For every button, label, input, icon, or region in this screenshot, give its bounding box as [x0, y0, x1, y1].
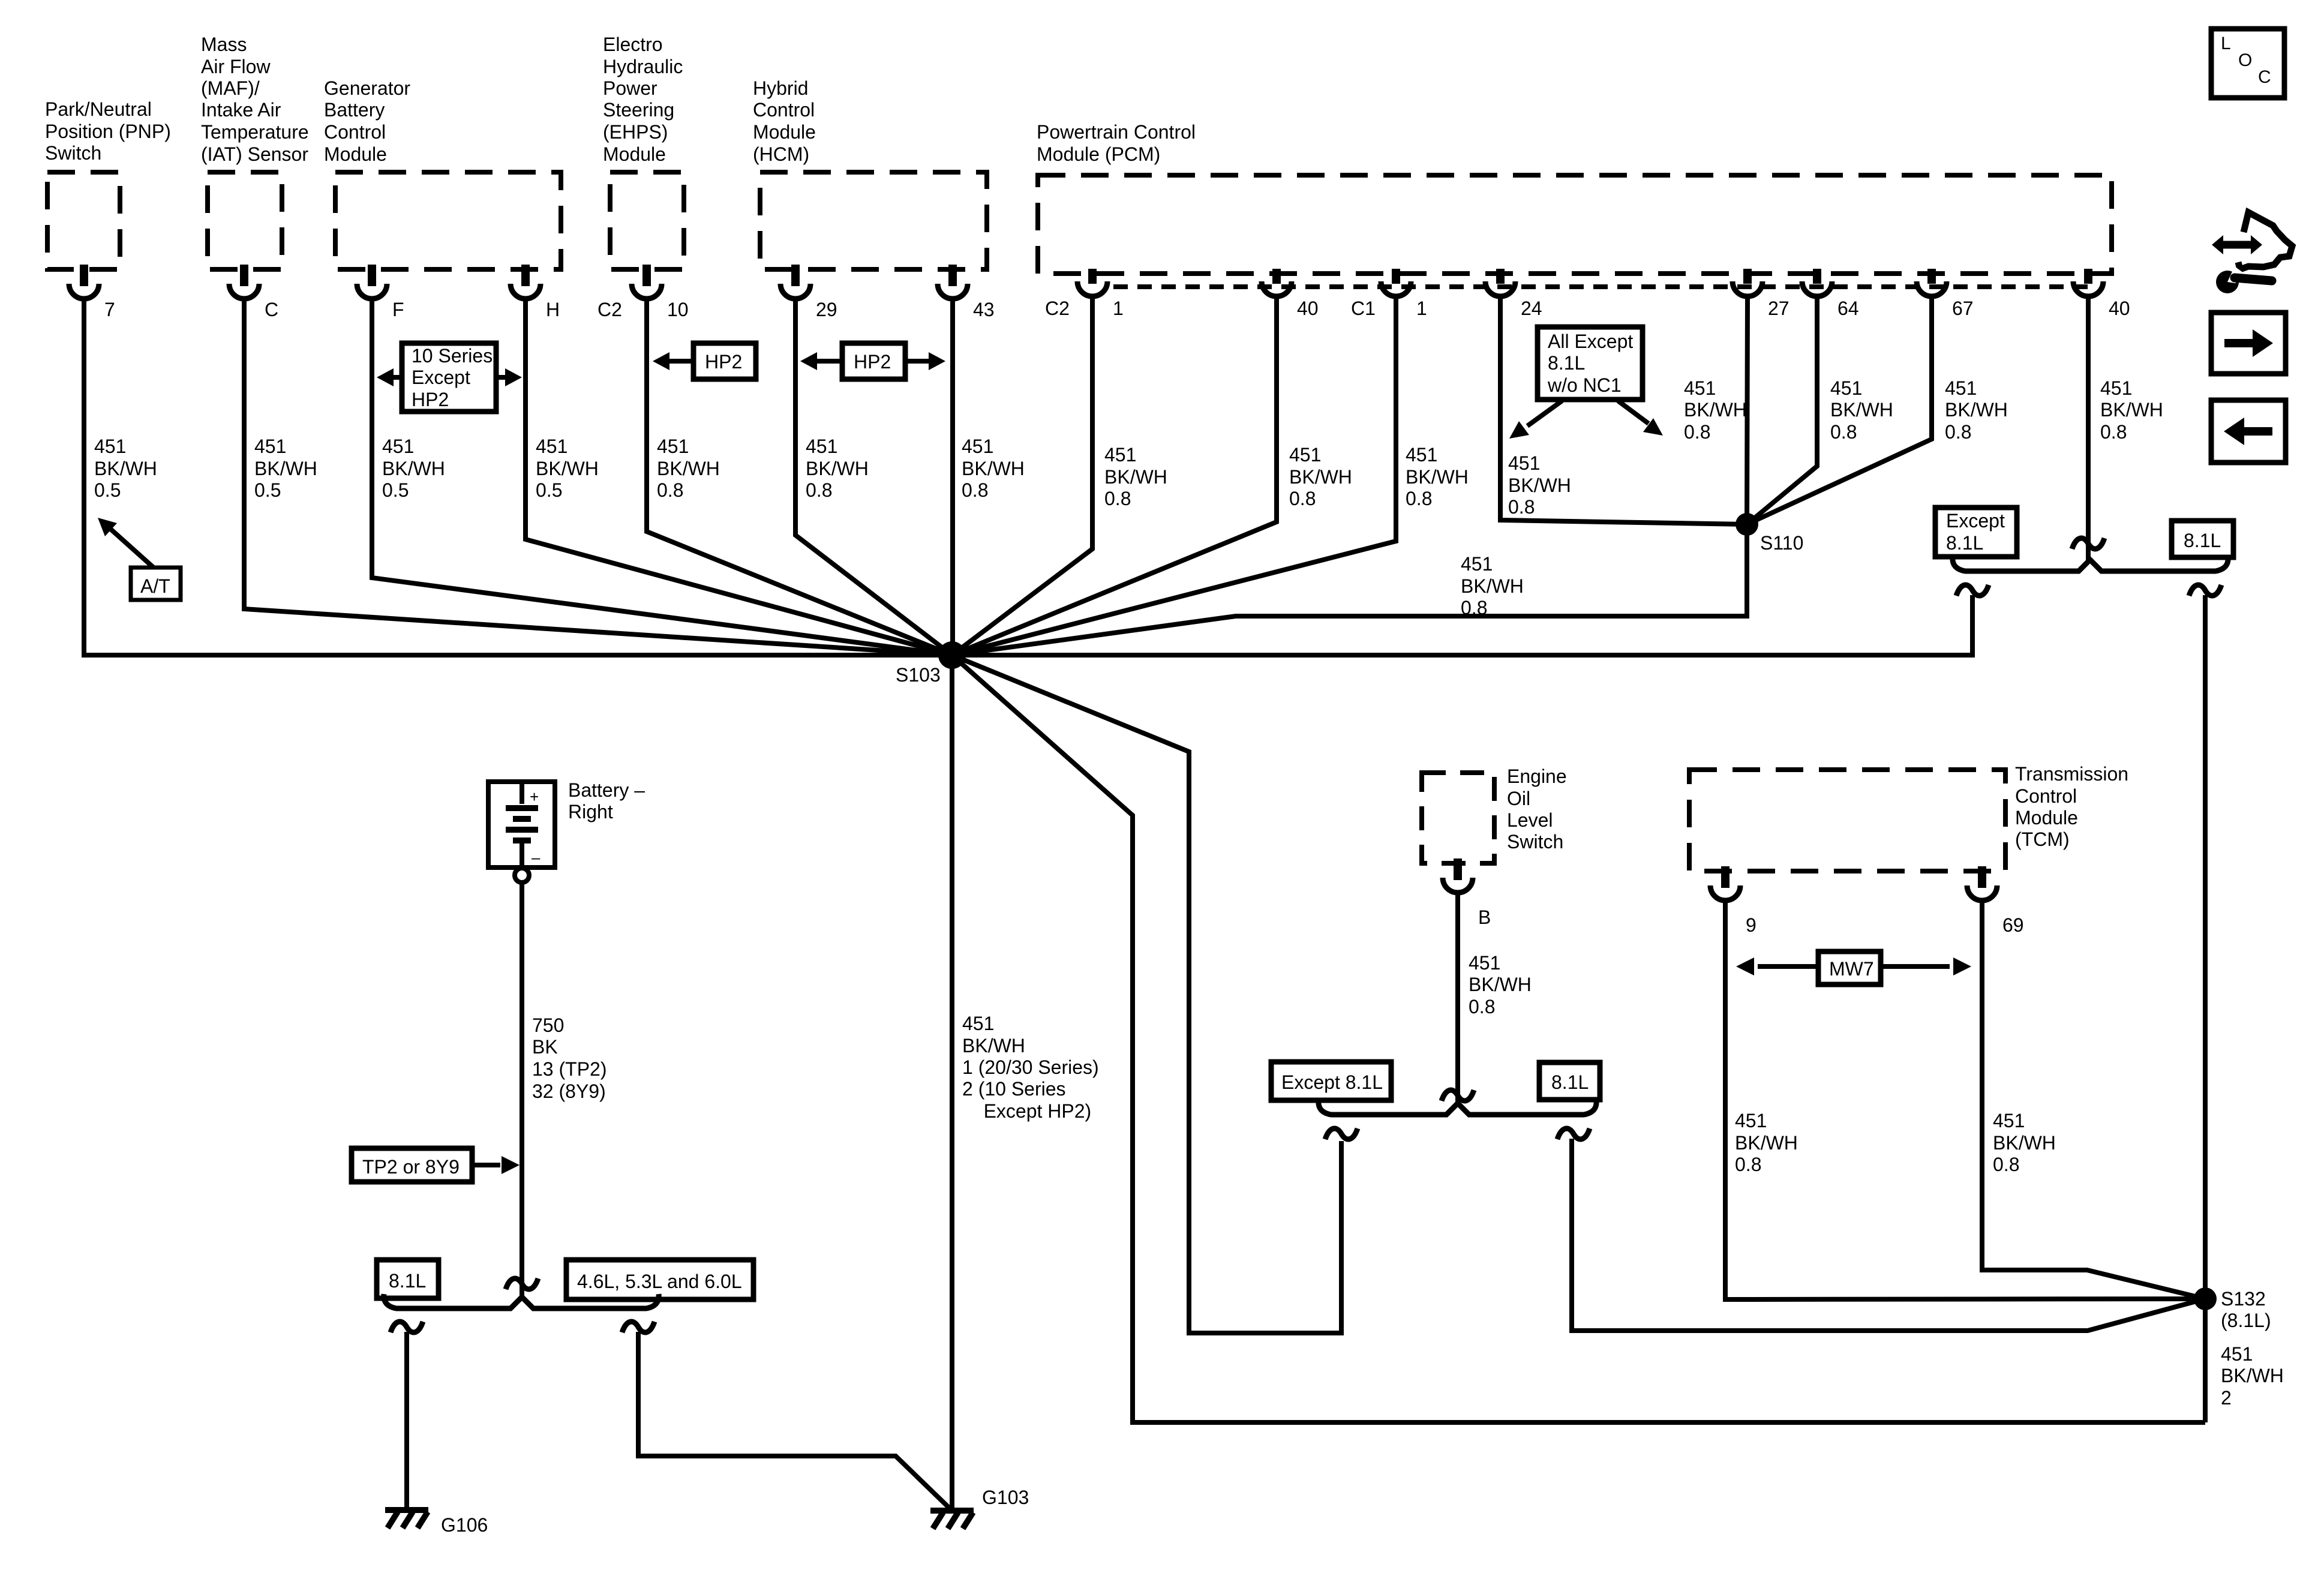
svg-text:H: H [546, 299, 560, 320]
splice S103 [896, 641, 966, 686]
svg-text:0.8: 0.8 [1406, 488, 1432, 509]
module Park/Neutral Position (PNP) Switch [45, 98, 171, 269]
PCM connector pin 1a [1077, 269, 1124, 319]
svg-text:0.8: 0.8 [806, 479, 832, 501]
svg-text:1: 1 [1113, 298, 1124, 319]
wire TCM pin 69 to S132 (451 BK/WH 0.8) [1982, 902, 2205, 1299]
PCM connector pin 67 [1917, 269, 1974, 319]
PCM connector pin 40b [2073, 269, 2130, 319]
wire label 451 BK/WH 0.8 (TCM 9) [1735, 1110, 1798, 1175]
svg-text:4.6L, 5.3L and 6.0L: 4.6L, 5.3L and 6.0L [577, 1271, 742, 1292]
svg-text:MW7: MW7 [1829, 958, 1874, 980]
wire pin 43 to S103 (451 BK/WH 0.8) [950, 300, 955, 655]
svg-text:BK/WH: BK/WH [536, 458, 599, 479]
svg-text:10 Series: 10 Series [412, 345, 493, 367]
connector label C2 (EHPS) [597, 299, 622, 320]
wire pin B down (451 BK/WH 0.8) [1455, 893, 1460, 1105]
wire label 451 BK/WH 0.8 (oil switch) [1469, 952, 1532, 1017]
wire label 451 BK/WH 0.8 [1289, 444, 1352, 509]
svg-text:13 (TP2): 13 (TP2) [532, 1058, 606, 1080]
wire label 451 BK/WH 0.8 [806, 436, 869, 501]
svg-text:Module: Module [603, 143, 666, 165]
svg-text:C: C [265, 299, 278, 320]
svg-text:451: 451 [657, 436, 689, 457]
module Electro Hydraulic Power Steering (EHPS) Module [603, 34, 684, 269]
svg-text:+: + [530, 788, 539, 806]
module Hybrid Control Module (HCM) [753, 77, 987, 269]
svg-text:67: 67 [1952, 298, 1974, 319]
svg-text:Control: Control [753, 99, 815, 121]
svg-text:0.8: 0.8 [1469, 996, 1495, 1017]
splice squiggle above oil brace [1442, 1090, 1474, 1101]
svg-text:HP2: HP2 [854, 351, 891, 373]
svg-text:8.1L: 8.1L [1548, 352, 1585, 374]
svg-text:1 (20/30 Series): 1 (20/30 Series) [962, 1056, 1099, 1078]
svg-text:Module: Module [324, 143, 387, 165]
brace split 8.1L / 4.6L,5.3L,6.0L [384, 1294, 659, 1308]
squiggle below top brace left [1956, 585, 1989, 596]
svg-text:451: 451 [962, 436, 993, 457]
splice squiggle above battery brace [506, 1278, 538, 1289]
svg-text:40: 40 [2109, 298, 2130, 319]
svg-text:0.5: 0.5 [94, 479, 121, 501]
svg-text:BK/WH: BK/WH [1406, 466, 1469, 488]
svg-text:BK/WH: BK/WH [94, 458, 157, 479]
svg-text:Air Flow: Air Flow [201, 56, 271, 77]
splice S110 [1736, 513, 1803, 554]
wire label 750 BK 13 (TP2) 32 (8Y9) [532, 1014, 606, 1102]
svg-text:451: 451 [1945, 377, 1977, 399]
wire label 451 BK/WH 0.8 (pin 24) [1508, 452, 1571, 518]
wire top brace right down to S132 (8.1L) [2203, 595, 2208, 1422]
wire PCM pin 27 to S110 (451 BK/WH 0.8) [1747, 298, 1747, 524]
svg-text:F: F [392, 299, 404, 320]
svg-text:Intake Air: Intake Air [201, 99, 281, 121]
svg-text:BK/WH: BK/WH [1469, 974, 1532, 995]
svg-text:O: O [2238, 50, 2252, 70]
wire S103 to oil brace left hook [952, 655, 1341, 1333]
svg-text:Oil: Oil [1507, 788, 1530, 809]
svg-text:Steering: Steering [603, 99, 674, 121]
connector pin 7 [69, 265, 115, 320]
svg-text:C: C [2258, 67, 2271, 87]
svg-text:Park/Neutral: Park/Neutral [45, 98, 152, 120]
wire oil brace right to S132 (8.1L) [1572, 1139, 2205, 1331]
svg-text:451: 451 [806, 436, 837, 457]
callout box A/T with arrow [98, 518, 181, 600]
svg-text:Powertrain Control: Powertrain Control [1037, 121, 1196, 143]
svg-text:0.5: 0.5 [382, 479, 409, 501]
svg-text:–: – [532, 848, 541, 866]
svg-text:0.8: 0.8 [962, 479, 988, 501]
svg-text:451: 451 [1830, 377, 1862, 399]
svg-text:BK/WH: BK/WH [806, 458, 869, 479]
svg-text:8.1L: 8.1L [389, 1270, 426, 1292]
svg-text:Control: Control [2015, 785, 2077, 807]
callout box TP2 or 8Y9 with arrow [352, 1148, 520, 1182]
wire S103 down to ground G103 [950, 655, 954, 1511]
PCM internal dotted bus line [1113, 284, 2088, 289]
wire pin F to S103 (451 BK/WH 0.5) [372, 300, 952, 655]
icon arrow-left legend box [2211, 400, 2286, 463]
svg-text:451: 451 [2100, 377, 2132, 399]
svg-text:451: 451 [254, 436, 286, 457]
svg-text:451: 451 [382, 436, 414, 457]
svg-text:451: 451 [1684, 377, 1716, 399]
svg-text:BK: BK [532, 1036, 558, 1058]
wire label 451 BK/WH 0.8 (pin 67) [1945, 377, 2008, 443]
module Powertrain Control Module (PCM) [1037, 121, 2112, 274]
svg-text:C2: C2 [1045, 298, 1070, 319]
svg-text:Except: Except [1946, 510, 2005, 532]
svg-text:Right: Right [568, 801, 613, 822]
svg-text:w/o NC1: w/o NC1 [1547, 374, 1622, 396]
callout box 8.1L (battery brace) [377, 1260, 439, 1298]
svg-text:Switch: Switch [1507, 831, 1563, 852]
connector pin 10 [632, 265, 689, 320]
svg-text:Transmission: Transmission [2015, 763, 2128, 785]
svg-text:Except HP2): Except HP2) [962, 1100, 1091, 1122]
svg-text:Except 8.1L: Except 8.1L [1281, 1071, 1383, 1093]
wire PCM pin 40 (right) to brace (451 BK/WH 0.8) [2086, 298, 2091, 562]
svg-text:27: 27 [1768, 298, 1789, 319]
svg-text:451: 451 [1461, 553, 1493, 575]
svg-text:BK/WH: BK/WH [1945, 399, 2008, 421]
wire label 451 BK/WH 0.5 [254, 436, 317, 501]
connector pin 29 [780, 265, 837, 320]
PCM connector pin 24 [1485, 269, 1542, 319]
wire PCM pin 67 to S110 (451 BK/WH 0.8) [1747, 298, 1932, 524]
TCM connector pin 9 [1710, 866, 1756, 936]
connector pin C [229, 265, 278, 320]
module Generator Battery Control Module [324, 77, 561, 269]
svg-text:29: 29 [816, 299, 837, 320]
wire battery brace left to ground G106 (8.1L) [404, 1332, 409, 1510]
svg-text:TP2 or 8Y9: TP2 or 8Y9 [362, 1156, 460, 1178]
svg-text:8.1L: 8.1L [1946, 532, 1983, 554]
svg-text:451: 451 [1469, 952, 1500, 974]
wire label 451 BK/WH 0.8 [962, 436, 1025, 501]
svg-text:G103: G103 [982, 1487, 1029, 1508]
svg-text:(MAF)/: (MAF)/ [201, 77, 260, 99]
callout box HP2 (HCM) with arrows [800, 343, 945, 379]
wire label 451 BK/WH 0.5 [382, 436, 445, 501]
svg-text:Hybrid: Hybrid [753, 77, 808, 99]
svg-text:451: 451 [1104, 444, 1136, 466]
battery terminal circle [515, 868, 529, 882]
wire label 451 BK/WH 0.8 (pin 40 right) [2100, 377, 2163, 443]
svg-text:9: 9 [1746, 914, 1756, 936]
svg-text:0.8: 0.8 [1461, 597, 1487, 619]
svg-text:Battery –: Battery – [568, 779, 645, 801]
svg-text:451: 451 [536, 436, 568, 457]
svg-text:Control: Control [324, 121, 386, 143]
svg-text:Generator: Generator [324, 77, 410, 99]
wire label 451 BK/WH 0.8 (S110 to S103) [1461, 553, 1524, 619]
svg-text:(TCM): (TCM) [2015, 828, 2070, 850]
callout box All Except 8.1L w/o NC1 with arrows [1509, 327, 1663, 439]
svg-text:BK/WH: BK/WH [962, 458, 1025, 479]
svg-text:0.8: 0.8 [657, 479, 683, 501]
icon wiggle-test hand with wrench [2212, 212, 2292, 293]
svg-text:BK/WH: BK/WH [254, 458, 317, 479]
svg-text:10: 10 [667, 299, 689, 320]
svg-text:Module: Module [2015, 807, 2078, 828]
svg-text:Module (PCM): Module (PCM) [1037, 143, 1160, 165]
svg-text:B: B [1478, 906, 1491, 928]
connector pin H [511, 265, 560, 320]
svg-text:HP2: HP2 [412, 389, 449, 410]
svg-text:C2: C2 [597, 299, 622, 320]
wire label 451 BK/WH 0.8 (TCM 69) [1993, 1110, 2056, 1175]
svg-text:BK/WH: BK/WH [1830, 399, 1893, 421]
brace split Except 8.1L / 8.1L [1953, 557, 2228, 571]
svg-text:Level: Level [1507, 809, 1553, 831]
svg-text:0.8: 0.8 [1735, 1154, 1761, 1175]
connector label C2 (PCM) [1045, 298, 1070, 319]
splice S132 (8.1L) [2194, 1287, 2271, 1331]
svg-text:451: 451 [2221, 1343, 2253, 1365]
svg-text:24: 24 [1521, 298, 1542, 319]
svg-text:0.8: 0.8 [1289, 488, 1316, 509]
svg-text:1: 1 [1416, 298, 1427, 319]
callout box Except 8.1L (top brace) [1935, 508, 2017, 557]
callout box MW7 with double arrow [1736, 951, 1971, 984]
PCM connector pin 64 [1802, 269, 1859, 319]
callout box HP2 (EHPS) with arrow [653, 343, 756, 379]
svg-text:43: 43 [973, 299, 995, 320]
svg-text:BK/WH: BK/WH [2221, 1365, 2284, 1386]
svg-text:S110: S110 [1760, 532, 1803, 554]
wire label 451 BK/WH 0.8 [657, 436, 720, 501]
wire label 451 BK/WH 1 (20/30 Series) 2 (10 Series Except HP2) [962, 1013, 1099, 1122]
svg-text:0.8: 0.8 [1104, 488, 1131, 509]
wire label 451 BK/WH 0.5 [536, 436, 599, 501]
svg-text:G106: G106 [441, 1514, 488, 1536]
connector pin B (Engine Oil Level Switch) [1443, 858, 1491, 928]
ground G106 [385, 1510, 488, 1536]
wire S103 to S132 bottom run (451 BK/WH 2) [952, 655, 2205, 1422]
wire pin 10 to S103 (451 BK/WH 0.8) [647, 300, 952, 655]
PCM connector pin 40a [1262, 269, 1319, 319]
module Mass Air Flow (MAF)/Intake Air Temperature (IAT) Sensor [201, 34, 309, 269]
svg-text:BK/WH: BK/WH [1289, 466, 1352, 488]
svg-text:32 (8Y9): 32 (8Y9) [532, 1080, 606, 1102]
svg-text:Battery: Battery [324, 99, 385, 121]
splice squiggle above top brace [2072, 538, 2104, 549]
battery Battery - Right [488, 779, 645, 867]
svg-text:BK/WH: BK/WH [657, 458, 720, 479]
svg-text:Except: Except [412, 367, 470, 388]
svg-text:451: 451 [1735, 1110, 1767, 1131]
svg-text:C1: C1 [1351, 298, 1376, 319]
svg-text:BK/WH: BK/WH [962, 1035, 1025, 1056]
svg-text:BK/WH: BK/WH [382, 458, 445, 479]
module Engine Oil Level Switch [1422, 766, 1567, 863]
wire PCM pin 64 to S110 (451 BK/WH 0.8) [1747, 298, 1817, 524]
wire top brace left to S103 [952, 595, 1972, 655]
svg-text:750: 750 [532, 1014, 564, 1036]
squiggle below top brace right [2189, 585, 2221, 596]
svg-text:Mass: Mass [201, 34, 247, 55]
wire battery brace right to ground G103 (4.6L/5.3L/6.0L) [638, 1332, 952, 1511]
svg-text:2 (10 Series: 2 (10 Series [962, 1078, 1066, 1100]
svg-text:451: 451 [1406, 444, 1437, 466]
svg-text:HP2: HP2 [705, 351, 742, 373]
wire pin 29 to S103 (451 BK/WH 0.8) [795, 300, 952, 655]
svg-text:Switch: Switch [45, 142, 101, 164]
ground G103 [930, 1487, 1029, 1529]
PCM connector pin 1b [1381, 269, 1427, 319]
icon arrow-right legend box [2211, 313, 2286, 374]
callout box 8.1L (top brace) [2172, 521, 2233, 557]
svg-text:All Except: All Except [1548, 331, 1633, 352]
wire TCM pin 9 to S132 (451 BK/WH 0.8) [1725, 902, 2205, 1299]
svg-text:BK/WH: BK/WH [1735, 1132, 1798, 1154]
svg-text:0.8: 0.8 [2100, 421, 2127, 443]
svg-text:451: 451 [962, 1013, 994, 1034]
callout box 8.1L (oil brace) [1539, 1062, 1600, 1100]
svg-text:0.8: 0.8 [1508, 496, 1535, 518]
svg-text:Temperature: Temperature [201, 121, 309, 143]
svg-text:64: 64 [1837, 298, 1859, 319]
TCM connector pin 69 [1967, 866, 2024, 936]
svg-text:451: 451 [1993, 1110, 2025, 1131]
svg-text:L: L [2221, 34, 2231, 53]
svg-text:(8.1L): (8.1L) [2221, 1310, 2271, 1331]
connector pin F [357, 265, 404, 320]
svg-text:Electro: Electro [603, 34, 663, 55]
callout box 4.6L, 5.3L and 6.0L (battery brace) [566, 1260, 753, 1299]
wire label 451 BK/WH 0.8 (pin 27) [1684, 377, 1747, 443]
svg-text:BK/WH: BK/WH [1461, 575, 1524, 597]
svg-text:Engine: Engine [1507, 766, 1567, 787]
wire label 451 BK/WH 0.8 (pin 64) [1830, 377, 1893, 443]
svg-text:0.5: 0.5 [254, 479, 281, 501]
svg-text:69: 69 [2002, 914, 2024, 936]
svg-text:(IAT) Sensor: (IAT) Sensor [201, 143, 308, 165]
icon LOC legend box [2211, 29, 2284, 98]
wire PCM pin 40 to S103 (451 BK/WH 0.8) [952, 298, 1277, 655]
svg-text:7: 7 [104, 299, 115, 320]
connector label C1 (PCM) [1351, 298, 1376, 319]
callout box 10 Series Except HP2 with arrows [377, 343, 522, 412]
svg-text:Module: Module [753, 121, 816, 143]
wire S110 to S103 (451 BK/WH 0.8) [952, 524, 1747, 655]
svg-text:451: 451 [1289, 444, 1321, 466]
callout box Except 8.1L (oil brace) [1271, 1062, 1391, 1100]
svg-text:BK/WH: BK/WH [1104, 466, 1167, 488]
wire label 451 BK/WH 2 (S132) [2221, 1343, 2284, 1409]
PCM connector pin 27 [1733, 269, 1789, 319]
svg-text:8.1L: 8.1L [1551, 1071, 1589, 1093]
svg-text:BK/WH: BK/WH [1508, 475, 1571, 496]
wire label 451 BK/WH 0.8 [1406, 444, 1469, 509]
svg-text:(EHPS): (EHPS) [603, 121, 668, 143]
wire PCM pin 1 (C1) to S103 (451 BK/WH 0.8) [952, 298, 1396, 655]
wire pin 7 to S103 (451 BK/WH 0.5) [84, 300, 952, 655]
svg-text:A/T: A/T [140, 575, 170, 597]
squiggle below oil brace left [1325, 1128, 1358, 1139]
brace split Except 8.1L / 8.1L (oil switch) [1319, 1100, 1596, 1115]
svg-text:S103: S103 [896, 664, 941, 686]
svg-text:0.8: 0.8 [1684, 421, 1710, 443]
svg-text:451: 451 [1508, 452, 1540, 474]
svg-text:8.1L: 8.1L [2184, 530, 2221, 551]
svg-text:40: 40 [1297, 298, 1319, 319]
connector pin 43 [938, 265, 995, 320]
svg-text:S132: S132 [2221, 1288, 2266, 1310]
squiggle below battery brace right [622, 1322, 654, 1332]
svg-text:0.5: 0.5 [536, 479, 562, 501]
svg-text:Power: Power [603, 77, 657, 99]
svg-text:BK/WH: BK/WH [1993, 1132, 2056, 1154]
svg-text:0.8: 0.8 [1945, 421, 1971, 443]
module Transmission Control Module (TCM) [1689, 763, 2128, 871]
svg-text:(HCM): (HCM) [753, 143, 809, 165]
wire label 451 BK/WH 0.5 [94, 436, 157, 501]
wire label 451 BK/WH 0.8 [1104, 444, 1167, 509]
svg-text:BK/WH: BK/WH [1684, 399, 1747, 421]
squiggle below battery brace left [391, 1322, 423, 1332]
wire pin H to S103 (451 BK/WH 0.5) [526, 300, 952, 655]
svg-text:0.8: 0.8 [1993, 1154, 2019, 1175]
squiggle below oil brace right [1557, 1128, 1590, 1139]
svg-text:Hydraulic: Hydraulic [603, 56, 683, 77]
wire PCM pin 24 to S110 (451 BK/WH 0.8) [1500, 298, 1747, 524]
svg-text:2: 2 [2221, 1387, 2232, 1409]
svg-text:Position (PNP): Position (PNP) [45, 121, 171, 142]
svg-text:0.8: 0.8 [1830, 421, 1857, 443]
svg-text:451: 451 [94, 436, 126, 457]
wire battery to brace (750 BK) [520, 882, 524, 1299]
wire PCM pin 1 (C2) to S103 (451 BK/WH 0.8) [952, 298, 1092, 655]
svg-text:BK/WH: BK/WH [2100, 399, 2163, 421]
wire pin C to S103 (451 BK/WH 0.5) [244, 300, 952, 655]
